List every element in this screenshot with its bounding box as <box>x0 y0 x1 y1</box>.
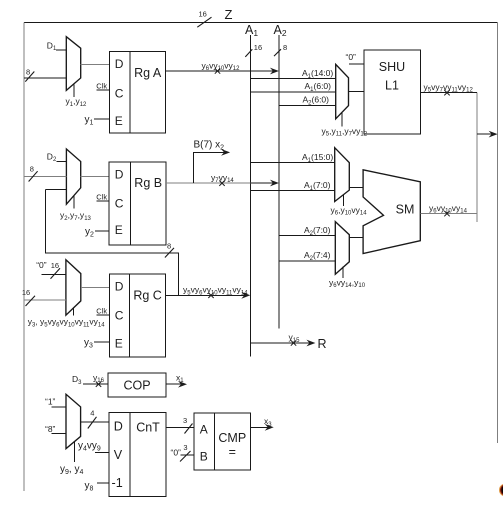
node A2 bus <box>274 23 287 329</box>
slash 8 on A2 <box>274 43 287 56</box>
wire A1(14:0) tap <box>250 68 335 80</box>
svg-text:B: B <box>200 450 208 464</box>
wire D2 input <box>47 151 67 163</box>
wire "1" input <box>45 397 66 407</box>
svg-text:Clk: Clk <box>96 307 107 316</box>
multiplexer M3 (Rg C input) <box>66 260 81 315</box>
wire Z bus top <box>24 21 498 23</box>
svg-text:SM: SM <box>396 203 415 217</box>
wire A2(6:0) tap <box>279 95 336 107</box>
wire A1(15:0) tap <box>250 152 334 164</box>
svg-text:3: 3 <box>183 443 187 452</box>
wire D1 input <box>47 40 67 52</box>
multiplexer M2 (Rg B input) <box>66 149 80 204</box>
wire M7 select stub <box>60 442 83 476</box>
svg-text:D: D <box>114 419 123 433</box>
wire D3 input to COP <box>72 372 108 387</box>
wire "0" 16 input to M3 <box>36 260 66 279</box>
wire result arrow into right bus <box>477 131 498 138</box>
svg-text:R: R <box>318 337 327 351</box>
multiplexer M4 (SHU input) <box>336 64 349 118</box>
svg-text:“8”: “8” <box>45 424 56 434</box>
wire CnT output to CMP A <box>166 416 194 434</box>
wire M5 select stub <box>331 195 368 217</box>
wire left frame vertical <box>23 22 25 491</box>
svg-text:Rg A: Rg A <box>134 66 162 80</box>
svg-text:C: C <box>115 197 124 211</box>
wire M7 output to CnT <box>81 409 109 429</box>
wire M6 select stub <box>329 267 366 290</box>
svg-text:L1: L1 <box>385 79 399 93</box>
block COP <box>108 373 166 397</box>
wire right frame vertical <box>497 22 499 443</box>
wire M4 select stub <box>322 112 368 138</box>
register Rg C <box>109 274 165 357</box>
svg-text:“1”: “1” <box>45 397 56 407</box>
wire x3 output of CMP <box>250 416 273 431</box>
wire y3 enable into Rg C <box>84 337 109 349</box>
svg-text:16: 16 <box>51 261 59 270</box>
wire M4 output <box>349 90 364 92</box>
wire Clk into Rg A <box>96 82 109 91</box>
wire Clk into Rg B <box>96 192 109 201</box>
node A1 bus <box>245 23 258 356</box>
svg-text:8: 8 <box>26 68 30 77</box>
block CMP comparator <box>194 413 250 470</box>
wire "8" input <box>45 424 66 434</box>
decorative dot bottom right <box>499 484 503 497</box>
svg-text:E: E <box>115 223 123 237</box>
multiplexer M5 (SM upper input) <box>335 148 350 202</box>
svg-text:“0”: “0” <box>36 260 47 270</box>
wire "0" into CMP B <box>171 443 195 462</box>
wire Clk into Rg C <box>96 307 109 316</box>
svg-text:3: 3 <box>183 416 187 425</box>
wire M2 select stub <box>60 196 92 222</box>
svg-text:COP: COP <box>123 378 150 392</box>
svg-text:SHU: SHU <box>379 60 405 74</box>
svg-text:E: E <box>115 114 123 128</box>
svg-text:V: V <box>114 448 123 462</box>
svg-text:E: E <box>115 337 123 351</box>
multiplexer M1 (Rg A input) <box>66 37 80 91</box>
svg-text:D: D <box>115 280 124 294</box>
wire feedback into M2 <box>46 188 67 190</box>
wire SM output <box>420 203 477 216</box>
svg-text:C: C <box>115 309 124 323</box>
svg-text:Clk: Clk <box>96 82 107 91</box>
svg-text:D: D <box>115 57 124 71</box>
svg-text:8: 8 <box>30 165 34 174</box>
wire SHU output <box>420 82 477 96</box>
wire 16-bit input to M3 <box>22 288 66 306</box>
slash 16 on Z bus <box>197 10 211 28</box>
block SHU L1 <box>364 50 421 134</box>
wire M1 output to Rg A <box>81 63 110 65</box>
svg-text:8: 8 <box>283 43 287 52</box>
multiplexer M6 (SM lower input) <box>335 222 349 275</box>
register Rg B <box>109 162 166 245</box>
svg-text:4: 4 <box>90 409 94 418</box>
block SM (adder) <box>363 170 420 254</box>
multiplexer M7 (CnT input) <box>66 394 81 448</box>
svg-text:Rg B: Rg B <box>134 176 162 190</box>
wire x1 output of COP <box>166 372 187 387</box>
wire M2 output to Rg B <box>81 175 109 177</box>
wire B(7) x2 branch <box>194 139 231 183</box>
wire M6 output <box>349 236 363 238</box>
svg-text:16: 16 <box>22 288 30 297</box>
wire A1(6:0) tap <box>250 81 335 93</box>
wire M3 output to Rg C <box>81 286 110 288</box>
svg-text:-1: -1 <box>112 476 123 490</box>
svg-text:B(7) x2: B(7) x2 <box>194 139 225 151</box>
svg-text:“0”: “0” <box>346 52 357 62</box>
svg-text:16: 16 <box>199 10 207 19</box>
wire A2(7:4) tap <box>279 250 335 262</box>
wire R output <box>251 332 327 351</box>
wire y2 enable into Rg B <box>85 227 109 239</box>
wire result bus vertical <box>476 93 478 222</box>
block CnT counter <box>109 413 166 497</box>
wire y8 into CnT -1 <box>85 481 109 493</box>
svg-text:=: = <box>229 445 236 459</box>
wire M3 select stub <box>28 308 106 329</box>
register Rg A <box>109 52 165 134</box>
wire A1(7:0) tap <box>250 180 334 192</box>
wire M5 output <box>349 186 363 188</box>
wire A2(7:0) tap <box>279 225 335 237</box>
svg-text:16: 16 <box>254 43 262 52</box>
wire 8-bit input to M1 <box>24 68 66 82</box>
svg-text:Clk: Clk <box>96 192 107 201</box>
wire "0" input into SHU <box>346 52 364 64</box>
wire Rg A output to A2 <box>166 60 279 74</box>
wire Rg B output to A2 <box>166 172 279 186</box>
svg-text:CMP: CMP <box>218 431 246 445</box>
svg-text:Z: Z <box>225 7 233 22</box>
svg-text:Rg C: Rg C <box>133 289 161 303</box>
wire y4vy9 into CnT V <box>78 441 109 453</box>
wire M1 select stub y1,y12 <box>66 85 88 108</box>
wire y1 enable into Rg A <box>85 114 110 126</box>
svg-text:“0”: “0” <box>171 448 182 458</box>
svg-text:8: 8 <box>167 242 171 251</box>
wire Rg C output to A1 <box>165 285 250 299</box>
svg-text:D: D <box>115 167 124 181</box>
slash 16 on A1 <box>245 43 262 57</box>
svg-text:A: A <box>200 423 208 437</box>
svg-text:CnT: CnT <box>136 421 160 435</box>
wire feedback Rg C output to M2 <box>46 189 179 295</box>
svg-text:C: C <box>115 86 124 100</box>
wire 8-bit input to M2 <box>24 165 67 182</box>
